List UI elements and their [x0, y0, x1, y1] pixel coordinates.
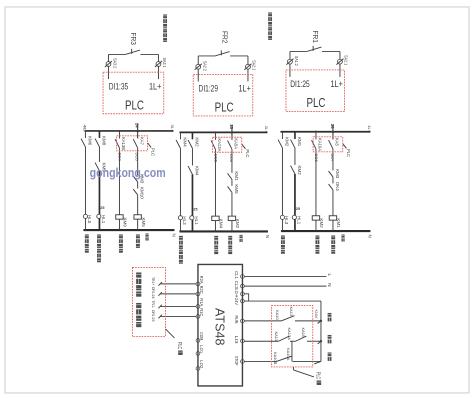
- svg-text:FR1: FR1: [311, 30, 318, 43]
- svg-text:DI1:29: DI1:29: [199, 84, 219, 95]
- svg-text:KM2: KM2: [195, 137, 200, 147]
- svg-text:N: N: [326, 283, 332, 287]
- svg-text:DR1:25: DR1:25: [151, 310, 155, 322]
- svg-text:SA2:1: SA2:1: [252, 60, 257, 70]
- svg-text:KA10A: KA10A: [286, 348, 291, 361]
- svg-text:KM4: KM4: [194, 166, 199, 176]
- svg-text:26: 26: [330, 124, 335, 129]
- svg-text:2L+: 2L+: [264, 126, 269, 134]
- svg-text:HL1: HL1: [194, 216, 199, 225]
- svg-text:KM2: KM2: [319, 218, 324, 228]
- svg-text:FR2: FR2: [220, 31, 227, 44]
- svg-text:KA10: KA10: [275, 310, 280, 321]
- svg-text:DR1:24: DR1:24: [151, 287, 155, 299]
- svg-text:PLC: PLC: [215, 101, 234, 115]
- svg-text:HL1: HL1: [297, 216, 302, 225]
- svg-text:DO7: DO7: [330, 153, 335, 162]
- svg-text:24: 24: [134, 123, 139, 128]
- svg-text:LO1: LO1: [199, 345, 204, 354]
- svg-text:R2A: R2A: [199, 276, 204, 284]
- svg-text:KM1: KM1: [336, 218, 341, 228]
- svg-text:N: N: [265, 235, 270, 238]
- svg-text:HL3: HL3: [182, 216, 187, 225]
- svg-text:HL1: HL1: [101, 215, 106, 224]
- svg-text:25: 25: [100, 206, 104, 210]
- svg-text:1L+: 1L+: [149, 81, 162, 92]
- svg-text:1L+: 1L+: [330, 79, 343, 90]
- svg-text:KA5: KA5: [335, 138, 340, 147]
- svg-text:DO6: DO6: [314, 153, 319, 162]
- svg-text:N: N: [171, 233, 176, 236]
- svg-text:PLC: PLC: [314, 372, 320, 380]
- svg-text:KM9: KM9: [123, 217, 128, 227]
- svg-text:1L+: 1L+: [238, 84, 251, 95]
- svg-text:TR1+: TR1+: [151, 277, 155, 286]
- svg-text:DO5: DO5: [135, 152, 140, 161]
- svg-text:KM5: KM5: [141, 217, 146, 227]
- svg-text:KA13A: KA13A: [287, 327, 292, 340]
- svg-text:N: N: [367, 234, 372, 237]
- svg-text:COM: COM: [199, 332, 204, 340]
- svg-text:KM3: KM3: [335, 169, 340, 179]
- svg-text:PLC: PLC: [150, 148, 155, 156]
- svg-text:KA13A: KA13A: [217, 138, 222, 151]
- svg-text:KM4: KM4: [183, 137, 188, 147]
- svg-text:4L: 4L: [82, 124, 87, 132]
- svg-text:R2C: R2C: [199, 286, 204, 294]
- svg-text:TR1-: TR1-: [151, 300, 155, 309]
- svg-text:KM10: KM10: [139, 187, 144, 199]
- svg-text:DO5: DO5: [213, 154, 218, 163]
- svg-text:R1C: R1C: [199, 308, 204, 316]
- svg-text:KM1: KM1: [234, 171, 239, 181]
- svg-text:SA3:1: SA3:1: [162, 57, 167, 67]
- svg-text:PLC: PLC: [306, 96, 325, 110]
- svg-text:CL1: CL1: [234, 271, 239, 280]
- svg-text:KM2: KM2: [285, 137, 290, 147]
- svg-text:DI1:25: DI1:25: [290, 79, 310, 90]
- svg-text:+24V: +24V: [314, 309, 319, 319]
- svg-text:PLC: PLC: [346, 149, 351, 157]
- svg-text:PLC: PLC: [176, 342, 182, 350]
- svg-text:KM2: KM2: [235, 219, 240, 229]
- svg-text:KM5: KM5: [234, 184, 239, 194]
- svg-text:SA1:1: SA1:1: [344, 55, 349, 65]
- svg-text:FR3: FR3: [129, 32, 136, 45]
- svg-text:KM2: KM2: [297, 165, 302, 175]
- svg-text:KA13B: KA13B: [121, 137, 126, 150]
- svg-text:+24V: +24V: [234, 296, 239, 306]
- svg-text:DI1:35: DI1:35: [109, 81, 129, 92]
- svg-text:DO6: DO6: [229, 154, 234, 163]
- svg-text:3L+: 3L+: [170, 124, 175, 132]
- svg-text:ATS48: ATS48: [212, 308, 226, 346]
- svg-text:SA3:2: SA3:2: [113, 58, 118, 68]
- svg-text:KA13: KA13: [289, 306, 294, 317]
- svg-text:25: 25: [296, 207, 300, 211]
- svg-text:DO4: DO4: [117, 152, 122, 161]
- svg-text:R1A: R1A: [199, 298, 204, 306]
- svg-text:HL5: HL5: [87, 215, 92, 224]
- svg-text:HL3: HL3: [284, 216, 289, 225]
- svg-text:LO2: LO2: [199, 360, 204, 369]
- svg-text:KA10: KA10: [301, 327, 306, 338]
- svg-text:KA7: KA7: [139, 137, 144, 146]
- svg-text:SA1:2: SA1:2: [294, 56, 299, 66]
- svg-text:KM1: KM1: [297, 137, 302, 147]
- svg-text:KM8: KM8: [102, 136, 107, 146]
- svg-text:L: L: [326, 273, 332, 276]
- svg-text:1L+: 1L+: [367, 125, 372, 133]
- svg-text:KA13: KA13: [274, 331, 279, 342]
- svg-text:RUN: RUN: [234, 315, 239, 323]
- svg-text:KA10B: KA10B: [273, 352, 278, 365]
- svg-text:gongkong.com: gongkong.com: [90, 165, 166, 180]
- svg-text:PLC: PLC: [245, 149, 250, 157]
- svg-text:KA5A: KA5A: [234, 138, 239, 149]
- svg-text:LI3: LI3: [234, 335, 239, 344]
- svg-text:PLC: PLC: [125, 98, 144, 112]
- svg-text:KM4: KM4: [219, 219, 224, 229]
- svg-text:KA10A: KA10A: [318, 138, 323, 151]
- svg-text:25: 25: [193, 207, 197, 211]
- svg-text:DK4: DK4: [335, 182, 340, 191]
- svg-text:STOP: STOP: [234, 356, 239, 366]
- svg-text:KM6: KM6: [88, 136, 93, 146]
- svg-text:25: 25: [229, 124, 234, 129]
- svg-text:SA2:2: SA2:2: [202, 61, 207, 71]
